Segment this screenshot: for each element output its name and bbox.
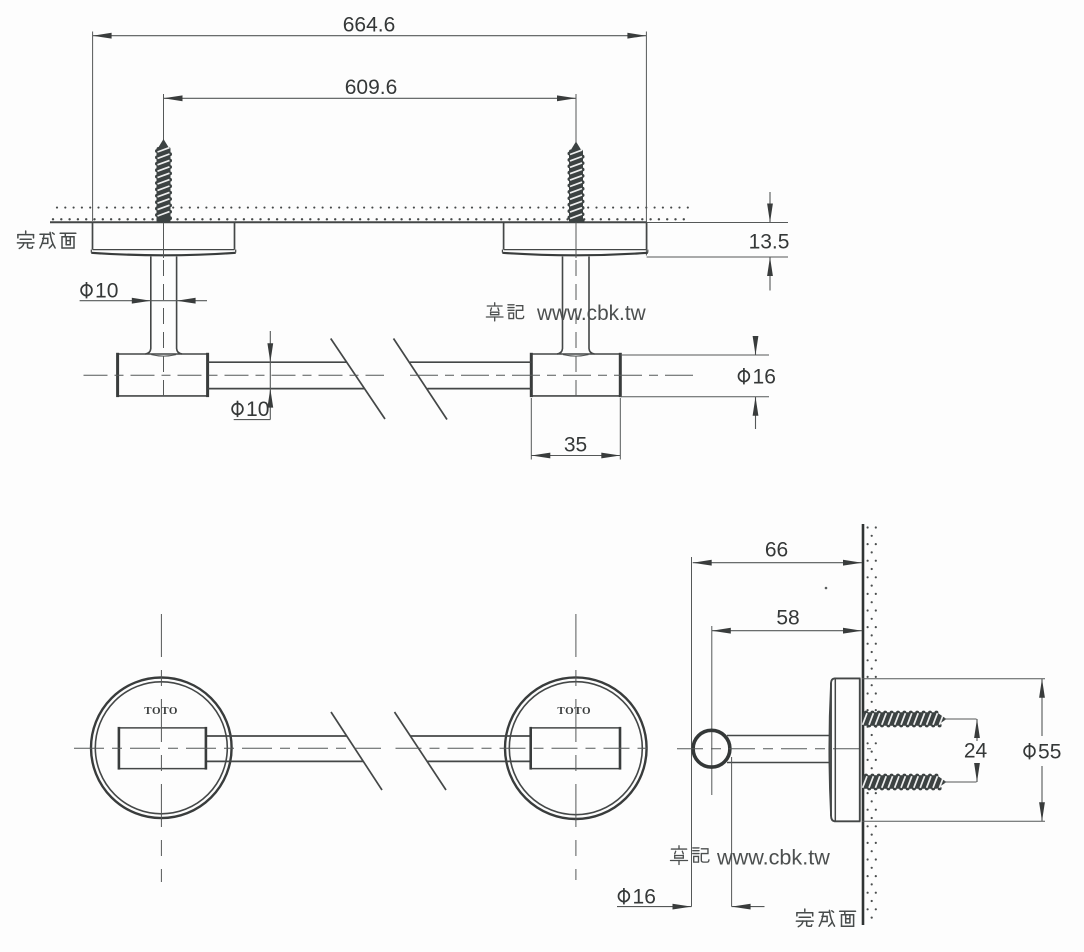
svg-text:13.5: 13.5 [749,231,790,254]
mounting screw upper (side view) [863,711,977,728]
dimension 609.6 screw pitch [164,76,577,143]
svg-text:16: 16 [633,886,656,909]
post stem left (front view) [145,257,182,357]
break line 1 (plan view) [331,712,382,790]
svg-text:TOTO: TOTO [557,705,591,717]
post centerline right (front view) [575,223,577,404]
svg-text:10: 10 [246,398,269,421]
right flange circles (plan view) [505,677,647,819]
towel bar right segment (plan view) [410,736,531,761]
svg-text:16: 16 [753,366,776,389]
stem (side view) [727,736,830,763]
bar centerline (front view) [84,374,699,376]
svg-text:58: 58 [776,607,799,630]
dimension phi10 bar diameter [232,331,273,421]
mounting screw lower (side view) [863,774,977,791]
extension line 66 / phi16 (side view) [691,557,693,907]
bar end circle phi16 (side view) [693,730,730,767]
wall flange left (front view) [91,223,235,256]
bar holder right (front view) [531,353,620,397]
wall flange right (front view) [502,223,647,256]
break line 2 (front view) [394,339,448,420]
watermark bottom [671,845,831,870]
vertical centerline left flange (plan view) [160,614,162,882]
mounting screw left (front view) [155,139,172,223]
towel bar right segment (front view) [410,362,532,388]
svg-text:66: 66 [765,539,788,562]
dimension phi16 bar diameter (side view) [617,757,765,910]
dimension phi10 stem diameter [80,280,207,304]
towel bar left segment (front view) [208,362,365,388]
towel bar left segment (plan view) [206,736,364,761]
finished surface line (top view) [50,222,788,224]
centerline bar axis (side view) [677,748,871,750]
extension line 58 (side view) [711,626,713,795]
svg-text:24: 24 [964,740,988,763]
dimension 13.5 flange projection [647,192,790,291]
svg-text:35: 35 [564,434,587,457]
ceiling hatch dots (top view) [52,207,689,221]
wall hatch dots (side view) [867,526,877,918]
label finished surface (front view) [17,231,75,248]
dimension 664.6 overall width [93,14,647,256]
svg-text:55: 55 [1038,741,1061,764]
svg-text:www.cbk.tw: www.cbk.tw [716,845,830,870]
svg-text:10: 10 [95,280,118,303]
left flange circles (plan view) [91,678,232,819]
bar holder left (front view) [118,353,208,397]
vertical centerline right flange (plan view) [575,614,577,880]
label finished surface (side view) [796,909,855,927]
dimension 24 screw spacing [964,719,988,782]
wall flange (side view) [829,678,860,821]
break line 1 (front view) [331,339,385,420]
watermark top [486,302,646,325]
dimension 66 total projection [693,539,862,566]
mounting screw right (front view) [568,142,585,223]
dimension 58 bar axis projection [712,607,862,634]
left holder body (plan view) [119,727,206,770]
svg-text:664.6: 664.6 [343,14,396,37]
right holder body (plan view) [531,727,620,770]
svg-text:www.cbk.tw: www.cbk.tw [536,302,647,325]
dimension phi16 holder diameter [620,336,776,429]
svg-text:609.6: 609.6 [345,76,398,99]
break line 2 (plan view) [395,712,447,790]
stray scan dot [825,587,828,590]
dimension phi55 flange diameter [862,679,1061,822]
dimension 35 holder length [531,398,620,460]
bar centerline (plan view) [74,747,654,749]
post stem right (front view) [557,257,595,357]
wall finished-surface line (side view) [862,524,865,925]
post centerline left (front view) [163,223,165,404]
